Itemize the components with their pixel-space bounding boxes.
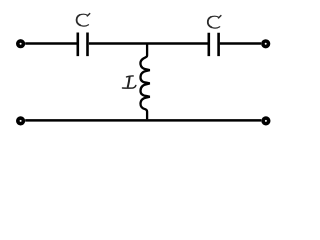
inductor L label bbox=[123, 76, 136, 88]
terminal left-bottom bbox=[18, 118, 24, 124]
terminal right-bottom bbox=[263, 118, 269, 124]
capacitor C1 label C bbox=[77, 14, 90, 26]
wire top-right segment bbox=[220, 42, 261, 44]
terminal left-top bbox=[18, 41, 24, 47]
terminal right-top bbox=[263, 41, 269, 47]
capacitor C1 plates bbox=[78, 33, 88, 57]
inductor L coil with leads bbox=[140, 45, 149, 120]
wire bottom rail bbox=[25, 119, 261, 122]
wire top-left segment bbox=[25, 42, 76, 44]
capacitor C2 plates bbox=[209, 33, 219, 56]
wire top-middle segment bbox=[89, 42, 208, 44]
capacitor C2 label C bbox=[208, 16, 221, 28]
